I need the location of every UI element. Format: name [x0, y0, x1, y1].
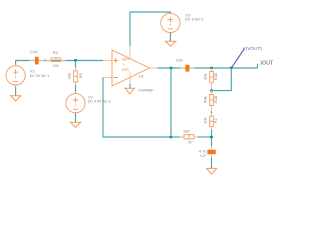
- wire C2* to ground: [211, 158, 213, 169]
- wire V3 bottom to ground: [169, 33, 171, 42]
- svg-text:U1: U1: [139, 74, 144, 79]
- svg-text:DC 0V AC 1: DC 0V AC 1: [30, 73, 50, 78]
- voltage source V2: [66, 91, 112, 115]
- svg-text:)OUT: )OUT: [260, 61, 274, 67]
- resistor R1*: [180, 128, 212, 144]
- capacitor C2A: [176, 57, 195, 71]
- svg-text:R2: R2: [213, 118, 218, 123]
- resistor R2B: [203, 91, 219, 110]
- wire R2B to R2: [211, 112, 213, 114]
- svg-text:R4: R4: [53, 50, 59, 55]
- resistor R1B: [203, 68, 219, 91]
- wire op-amp output rail: [158, 64, 258, 68]
- wire VSS to ground: [129, 84, 131, 88]
- voltage source V1: [6, 64, 49, 88]
- svg-text:10k: 10k: [203, 117, 208, 124]
- node chain-top junction dot: [210, 67, 213, 70]
- svg-text:R1*: R1*: [188, 140, 193, 145]
- op-amp U1: [103, 46, 158, 86]
- wire bypass: [212, 68, 232, 91]
- node OUTFB junction dot: [170, 67, 173, 70]
- ground under V3: [165, 41, 175, 46]
- wire VDD rail to V3: [130, 12, 170, 46]
- capacitor C2*: [199, 146, 216, 158]
- svg-text:DC 4.5V AC 0: DC 4.5V AC 0: [88, 98, 112, 103]
- ground under V2: [70, 122, 80, 127]
- svg-text:C2A: C2A: [176, 57, 183, 62]
- svg-text:R3: R3: [78, 73, 83, 78]
- node chain-mid junction dot: [210, 89, 213, 92]
- resistor R2: [203, 110, 219, 131]
- wire inverting input loop: [103, 78, 171, 138]
- wire V2 bottom to ground: [75, 113, 77, 123]
- wire feedback to R1*: [171, 136, 180, 138]
- svg-text:V(VOUT): V(VOUT): [243, 46, 263, 51]
- svg-text:VDD: VDD: [121, 56, 129, 61]
- node M junction dot: [210, 136, 213, 139]
- node bypass-top junction dot: [230, 67, 233, 70]
- svg-text:10k: 10k: [53, 63, 59, 68]
- wire chain to node M: [211, 130, 213, 146]
- voltage source V3: [161, 12, 205, 35]
- svg-text:30k: 30k: [203, 73, 208, 80]
- ground under op-amp: [125, 88, 135, 94]
- svg-text:100k*: 100k*: [183, 128, 190, 133]
- ground under C2*: [207, 168, 217, 174]
- node A junction dot (input branch): [74, 59, 77, 62]
- wire V1 bottom to ground: [15, 85, 17, 96]
- svg-text:DC 9 AC 0: DC 9 AC 0: [185, 17, 204, 22]
- svg-text:C1A: C1A: [30, 49, 38, 54]
- wire feedback vertical: [170, 68, 172, 137]
- svg-text:VSS: VSS: [121, 67, 129, 72]
- port OUT: [260, 61, 274, 67]
- svg-text:R1B: R1B: [213, 73, 218, 80]
- svg-text:◇OPAMP: ◇OPAMP: [138, 87, 154, 92]
- svg-text:R2B: R2B: [213, 96, 218, 103]
- svg-text:C2*: C2*: [200, 153, 206, 158]
- svg-text:10k: 10k: [67, 73, 72, 80]
- node feedback-bottom junction dot: [170, 136, 173, 139]
- probe V(VOUT): [231, 46, 262, 68]
- svg-text:50k: 50k: [203, 96, 208, 103]
- ground under V1: [11, 96, 21, 101]
- wire R3 to V2: [75, 85, 77, 94]
- wire node A down to R3: [75, 61, 77, 68]
- label OPAMP: [138, 87, 154, 92]
- capacitor C1A: [30, 49, 45, 65]
- wire V1 top to input rail: [16, 61, 103, 66]
- resistor R4: [46, 50, 66, 68]
- resistor R3: [67, 68, 83, 85]
